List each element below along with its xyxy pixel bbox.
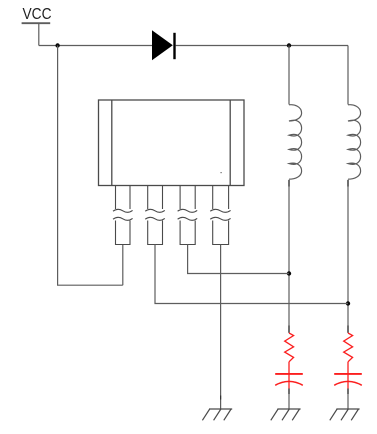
wire top to L1 — [288, 46, 290, 105]
wire pin 4 to ground — [220, 245, 222, 410]
pin 2 of U1 — [145, 186, 165, 245]
wire VCC to diode anode — [39, 45, 152, 47]
wire pin 3 to L1 junction — [188, 245, 289, 274]
IC package U1 body — [99, 100, 245, 186]
inductor L2 — [348, 105, 361, 180]
wire L1 bottom down to R1 — [288, 180, 290, 333]
capacitor C2 — [334, 374, 362, 389]
wire pin 2 to L2 junction — [155, 245, 348, 304]
resistor R1 — [285, 333, 294, 362]
pin 1 of U1 — [113, 186, 133, 245]
resistor R2 — [344, 333, 353, 362]
wire top to L2 — [347, 46, 349, 105]
node junction top of L1 — [287, 43, 291, 47]
pin-end mark C1 bottom — [288, 389, 290, 395]
pin-end mark C2 bottom — [347, 389, 349, 395]
pin-end mark gnd lead under pin 4 — [220, 396, 222, 400]
ground under C2 — [330, 409, 360, 420]
pin-end mark L1 bottom — [288, 180, 290, 187]
power symbol VCC — [22, 6, 52, 46]
pin 4 of U1 — [210, 186, 230, 245]
wire R2 to C2 — [347, 362, 349, 374]
wire C1 to ground — [288, 389, 290, 410]
stray dot artifact in package — [221, 172, 222, 173]
wire R1 to C1 — [288, 362, 290, 374]
wire pin 1 lead — [122, 245, 124, 286]
wire diode cathode to right rail — [176, 45, 349, 47]
pin 3 of U1 — [178, 186, 198, 245]
diode D1 — [152, 30, 175, 60]
wire L2 bottom down to R2 — [347, 180, 349, 333]
svg-text:VCC: VCC — [23, 6, 52, 23]
node junction L2/pin2 — [346, 301, 350, 305]
ground under pin 4 — [202, 409, 232, 420]
wire C2 to ground — [347, 389, 349, 410]
wire left rail down — [58, 46, 123, 286]
pin-end mark R2 top — [347, 326, 349, 333]
ground under C1 — [271, 409, 301, 420]
pin-end mark R1 top — [288, 326, 290, 333]
node junction VCC rail — [55, 43, 59, 47]
inductor L1 — [289, 105, 302, 180]
pin-end mark L2 bottom — [347, 180, 349, 187]
node junction L1/pin3 — [287, 271, 291, 275]
capacitor C1 — [275, 374, 303, 389]
